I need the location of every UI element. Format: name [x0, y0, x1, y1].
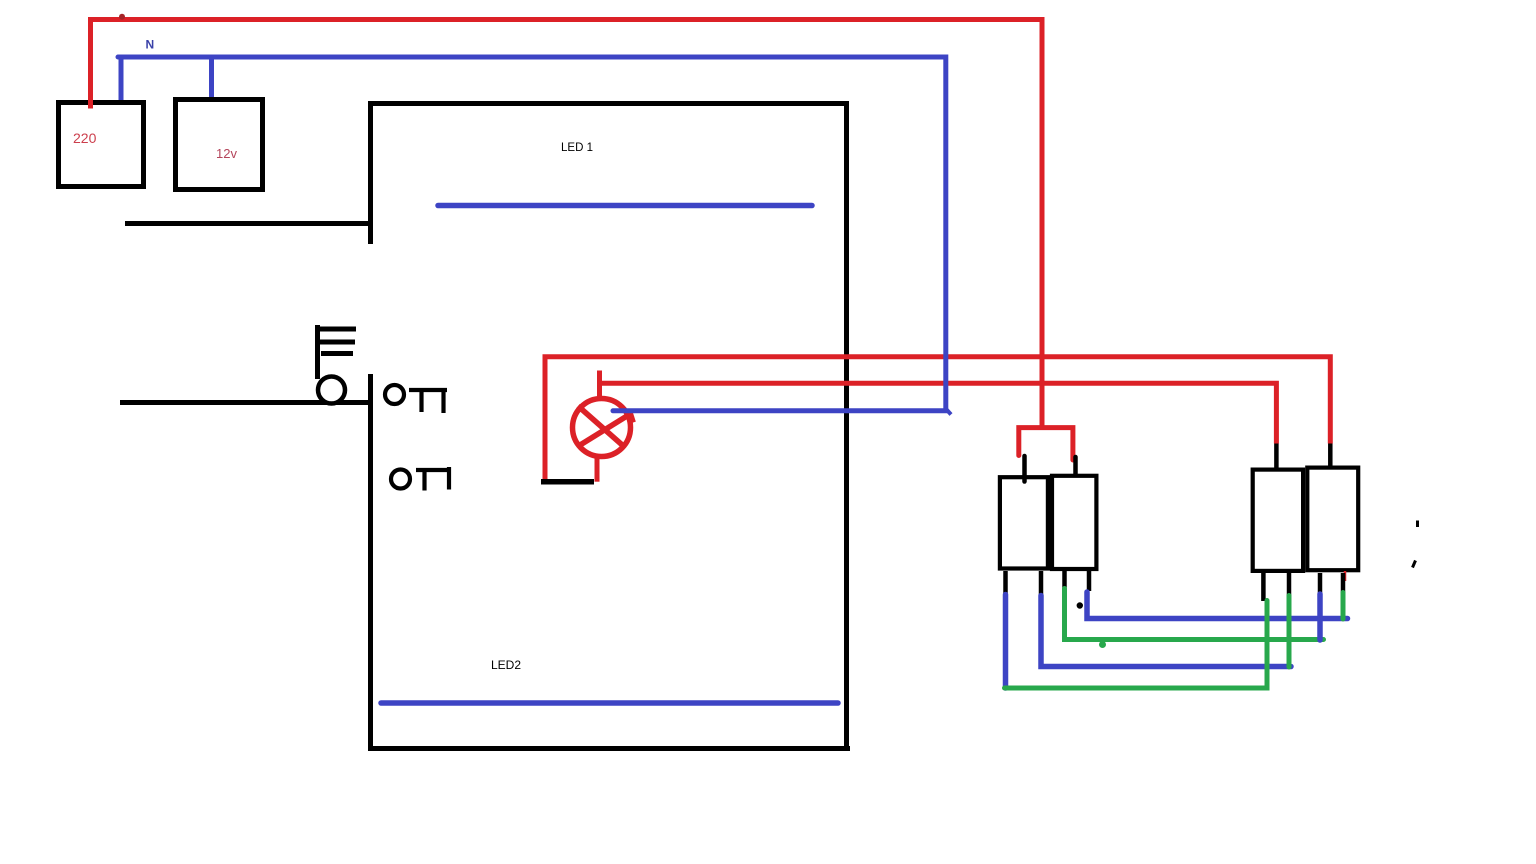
black wire from supply to panel: [125, 221, 371, 226]
red wire: lamp to right terminal block 3: [601, 383, 1277, 443]
blue drop into box 12v: [209, 57, 214, 104]
svg-text:220: 220: [73, 130, 97, 146]
wire neutral N (blue) across the top, down the right and back to lamp: [118, 57, 946, 411]
svg-text:LED2: LED2: [491, 658, 521, 672]
black dot near left pin4: [1077, 602, 1083, 608]
LED panel outline (black rectangle, open on left side): [368, 101, 373, 244]
svg-text:12v: 12v: [216, 146, 237, 161]
svg-text:LED 1: LED 1: [561, 142, 593, 154]
block3/4 bottom pins (black): [1263, 573, 1343, 601]
tick mark upper right: [1416, 521, 1419, 528]
LED1 strip (blue): [438, 203, 812, 209]
tick mark lower right: [1413, 561, 1416, 568]
red wire: lamp loop up-over to right terminal block 4: [545, 357, 1330, 482]
green dot on wire B: [1099, 641, 1106, 648]
wire C (blue): left pin2 to right pin2: [1041, 596, 1291, 667]
black jumper at bottom of lamp loop: [541, 479, 594, 485]
green drop right pin4: [1341, 593, 1346, 620]
green drop right pin2: [1287, 596, 1292, 668]
wire live 220V (red) from box 220 up and across the top: [91, 20, 1043, 109]
terminal block 4: [1307, 468, 1358, 571]
black stub into block 4: [1328, 444, 1333, 467]
wire D blue segment from left pin1: [1003, 595, 1009, 689]
blue drop into box 220: [119, 57, 124, 104]
black stub into block 1: [1022, 456, 1027, 482]
red junction dot: [119, 14, 125, 20]
black stub into block 2: [1073, 457, 1078, 474]
lamp top lead (red): [597, 371, 602, 403]
red bridge over left terminal blocks: [1019, 428, 1073, 460]
LED2 strip (blue): [381, 700, 838, 706]
black wire to switch: [120, 400, 370, 405]
comb symbol (connector): [317, 325, 356, 379]
lamp bottom lead (red): [595, 455, 600, 482]
wire D green segment to right pin1: [1005, 601, 1268, 689]
black stub into block 3: [1274, 444, 1279, 469]
terminal block 3: [1253, 470, 1303, 571]
block1/2 bottom pins (black): [1006, 571, 1090, 597]
box 12v: [176, 100, 263, 190]
blue drop right pin3: [1317, 594, 1323, 640]
circle contact: [318, 377, 345, 404]
red sliver on right pin4: [1344, 571, 1347, 581]
red riser down to left terminal block: [1040, 17, 1045, 427]
lamp (circle with X): [573, 399, 634, 457]
blue corner tail: [947, 410, 952, 415]
red tip into box 220: [88, 100, 93, 109]
switch contact 2 (O with bracket): [391, 467, 451, 491]
box 220: [59, 103, 144, 187]
svg-text:N: N: [146, 38, 155, 52]
switch contact 1 (O with bracket): [385, 385, 447, 413]
terminal block 2: [1052, 476, 1096, 569]
terminal block 1: [1000, 477, 1048, 568]
wire A (blue): left pin4 to right pin4: [1087, 592, 1348, 619]
wire B (green): left pin3 to right pin3: [1065, 589, 1324, 640]
